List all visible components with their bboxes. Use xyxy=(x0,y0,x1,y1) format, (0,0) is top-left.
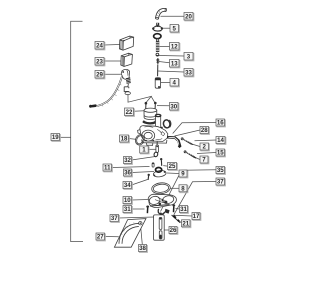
drain screw 21 xyxy=(172,215,181,223)
cable 22 xyxy=(89,76,122,107)
label 10 xyxy=(123,197,132,205)
svg-text:31: 31 xyxy=(124,206,131,213)
leader 37 right xyxy=(174,182,216,215)
svg-text:22: 22 xyxy=(126,109,133,116)
svg-text:26: 26 xyxy=(170,227,177,234)
needle valve 11 xyxy=(152,162,154,167)
svg-text:23: 23 xyxy=(96,58,103,65)
svg-text:20: 20 xyxy=(185,13,192,20)
leader 4 xyxy=(161,82,170,84)
leader 32 xyxy=(132,157,156,161)
svg-text:11: 11 xyxy=(104,165,111,172)
leader 10 xyxy=(132,199,150,202)
leader 30 xyxy=(157,105,170,107)
svg-text:37: 37 xyxy=(217,179,224,186)
leader 11 xyxy=(112,167,150,168)
spring 12 xyxy=(156,39,159,52)
leader 29 xyxy=(104,73,121,75)
label 36 xyxy=(124,169,133,177)
leader 37 left xyxy=(119,217,155,218)
leader 24 xyxy=(104,44,120,47)
air scoop 27 xyxy=(114,219,146,248)
label 4 xyxy=(170,79,179,87)
washer 3 xyxy=(156,53,159,56)
svg-text:21: 21 xyxy=(182,220,189,227)
leader 2 xyxy=(190,144,200,147)
label 18 xyxy=(120,135,130,143)
leader 31 left xyxy=(132,208,145,210)
box 24 xyxy=(119,36,133,50)
carb top cover 30 xyxy=(144,108,157,119)
svg-text:33: 33 xyxy=(185,69,192,76)
leader 1 xyxy=(148,148,156,150)
needle 33 xyxy=(157,64,159,76)
label 26 xyxy=(169,227,178,235)
label 3 xyxy=(184,53,194,61)
label 28 xyxy=(200,127,209,135)
leader 23 xyxy=(104,60,121,62)
label 31b xyxy=(180,206,189,214)
leader 21 xyxy=(178,221,182,223)
leader 31 right xyxy=(176,208,180,211)
svg-text:27: 27 xyxy=(97,234,104,241)
label 34 xyxy=(123,182,132,190)
svg-text:35: 35 xyxy=(217,167,224,174)
label 20 xyxy=(184,13,194,21)
svg-text:37: 37 xyxy=(111,215,118,222)
svg-text:13: 13 xyxy=(171,60,178,67)
label 23 xyxy=(95,58,105,66)
leader 22 xyxy=(134,110,145,112)
box 23 xyxy=(121,53,133,66)
label 33 xyxy=(184,69,194,77)
label 31 xyxy=(123,206,132,214)
label 22 xyxy=(125,108,135,116)
throttle cap 29 xyxy=(121,69,131,94)
valve seat 9 xyxy=(153,168,167,178)
svg-text:17: 17 xyxy=(193,213,200,220)
svg-text:19: 19 xyxy=(52,134,59,141)
label 14 xyxy=(216,137,226,145)
label 13 xyxy=(170,60,180,68)
fuel inlet thick xyxy=(167,137,180,147)
svg-text:29: 29 xyxy=(96,71,103,78)
label 19 xyxy=(51,134,60,142)
leader 18 xyxy=(129,138,136,141)
svg-text:24: 24 xyxy=(96,42,103,49)
screw 25 xyxy=(160,158,162,166)
label 35 xyxy=(216,167,225,175)
label 38 xyxy=(139,245,148,253)
screws 30 xyxy=(145,102,157,110)
leader 25 xyxy=(163,165,167,168)
leader 17 xyxy=(174,214,193,217)
screw 34 xyxy=(148,174,150,180)
atomizer 4 xyxy=(155,77,160,88)
leader 20 xyxy=(161,15,185,17)
label 2 xyxy=(200,143,209,151)
leader 16 xyxy=(173,123,216,134)
leader 36 xyxy=(132,172,155,173)
leader 5 xyxy=(162,27,170,29)
leader 8 xyxy=(171,187,180,189)
bracket 19 xyxy=(71,21,83,241)
leader 38 xyxy=(141,225,143,245)
label 15 xyxy=(216,149,225,157)
needle clip 13 xyxy=(156,58,159,63)
ring 32 part xyxy=(153,152,158,157)
screw 31 right xyxy=(172,204,175,212)
svg-text:10: 10 xyxy=(124,197,131,204)
float bowl 26 xyxy=(154,215,165,240)
leader 22 to screws xyxy=(128,95,151,103)
svg-text:36: 36 xyxy=(124,170,131,177)
svg-text:18: 18 xyxy=(121,136,128,143)
label 37 xyxy=(110,215,119,223)
label 29 xyxy=(95,71,105,79)
leader 33 xyxy=(158,71,184,72)
leader 3 xyxy=(159,55,184,58)
label 21 xyxy=(182,220,191,228)
svg-text:31: 31 xyxy=(180,206,187,213)
label 12 xyxy=(170,43,180,51)
svg-text:34: 34 xyxy=(124,182,131,189)
screw 2/14 xyxy=(181,137,193,144)
gasket 8 xyxy=(151,182,171,195)
label 25 xyxy=(168,163,178,171)
elbow tube 20 xyxy=(155,8,166,19)
leader 12 xyxy=(160,46,170,48)
svg-text:32: 32 xyxy=(124,157,131,164)
label 37b xyxy=(216,178,225,186)
leader 35 xyxy=(161,170,217,212)
label 27 xyxy=(96,233,105,241)
main jet 1 xyxy=(156,142,159,153)
svg-text:12: 12 xyxy=(171,43,178,50)
label 8 xyxy=(179,185,188,193)
leader 26 xyxy=(165,229,170,231)
leader 19 xyxy=(60,136,71,138)
leader 22 branch xyxy=(151,96,155,102)
leader 13 xyxy=(159,62,170,63)
label 1 xyxy=(140,146,149,154)
svg-text:15: 15 xyxy=(217,150,224,157)
svg-text:14: 14 xyxy=(217,137,224,144)
o-ring 18 xyxy=(134,133,146,146)
label 5 xyxy=(170,25,179,33)
leader 27 xyxy=(105,236,119,238)
cap nut 5 xyxy=(152,23,163,31)
leader 28 xyxy=(175,130,201,136)
svg-text:16: 16 xyxy=(217,120,224,127)
label 17 xyxy=(192,213,201,221)
leader lines xyxy=(60,16,217,244)
svg-text:1: 1 xyxy=(142,147,146,154)
leader 34 xyxy=(132,180,148,186)
svg-text:30: 30 xyxy=(170,103,177,110)
label 11 xyxy=(103,164,112,172)
label 9 xyxy=(179,170,188,178)
leader 15 xyxy=(197,153,216,154)
screw 31 left xyxy=(146,206,149,214)
leader 9 xyxy=(167,172,179,175)
svg-text:38: 38 xyxy=(139,245,146,252)
label 32 xyxy=(124,157,133,165)
o-ring under 5 xyxy=(154,34,161,39)
screw 7/15 xyxy=(184,150,196,158)
carb body xyxy=(138,114,171,145)
label 7 xyxy=(200,156,209,164)
svg-text:28: 28 xyxy=(201,127,208,134)
label 24 xyxy=(95,42,105,50)
parts xyxy=(89,8,196,247)
leader 14 xyxy=(195,139,217,142)
leader 7 xyxy=(192,156,201,160)
label 30 xyxy=(170,103,179,111)
label 16 xyxy=(216,119,225,127)
svg-text:25: 25 xyxy=(169,163,176,170)
float 10 xyxy=(148,194,176,215)
